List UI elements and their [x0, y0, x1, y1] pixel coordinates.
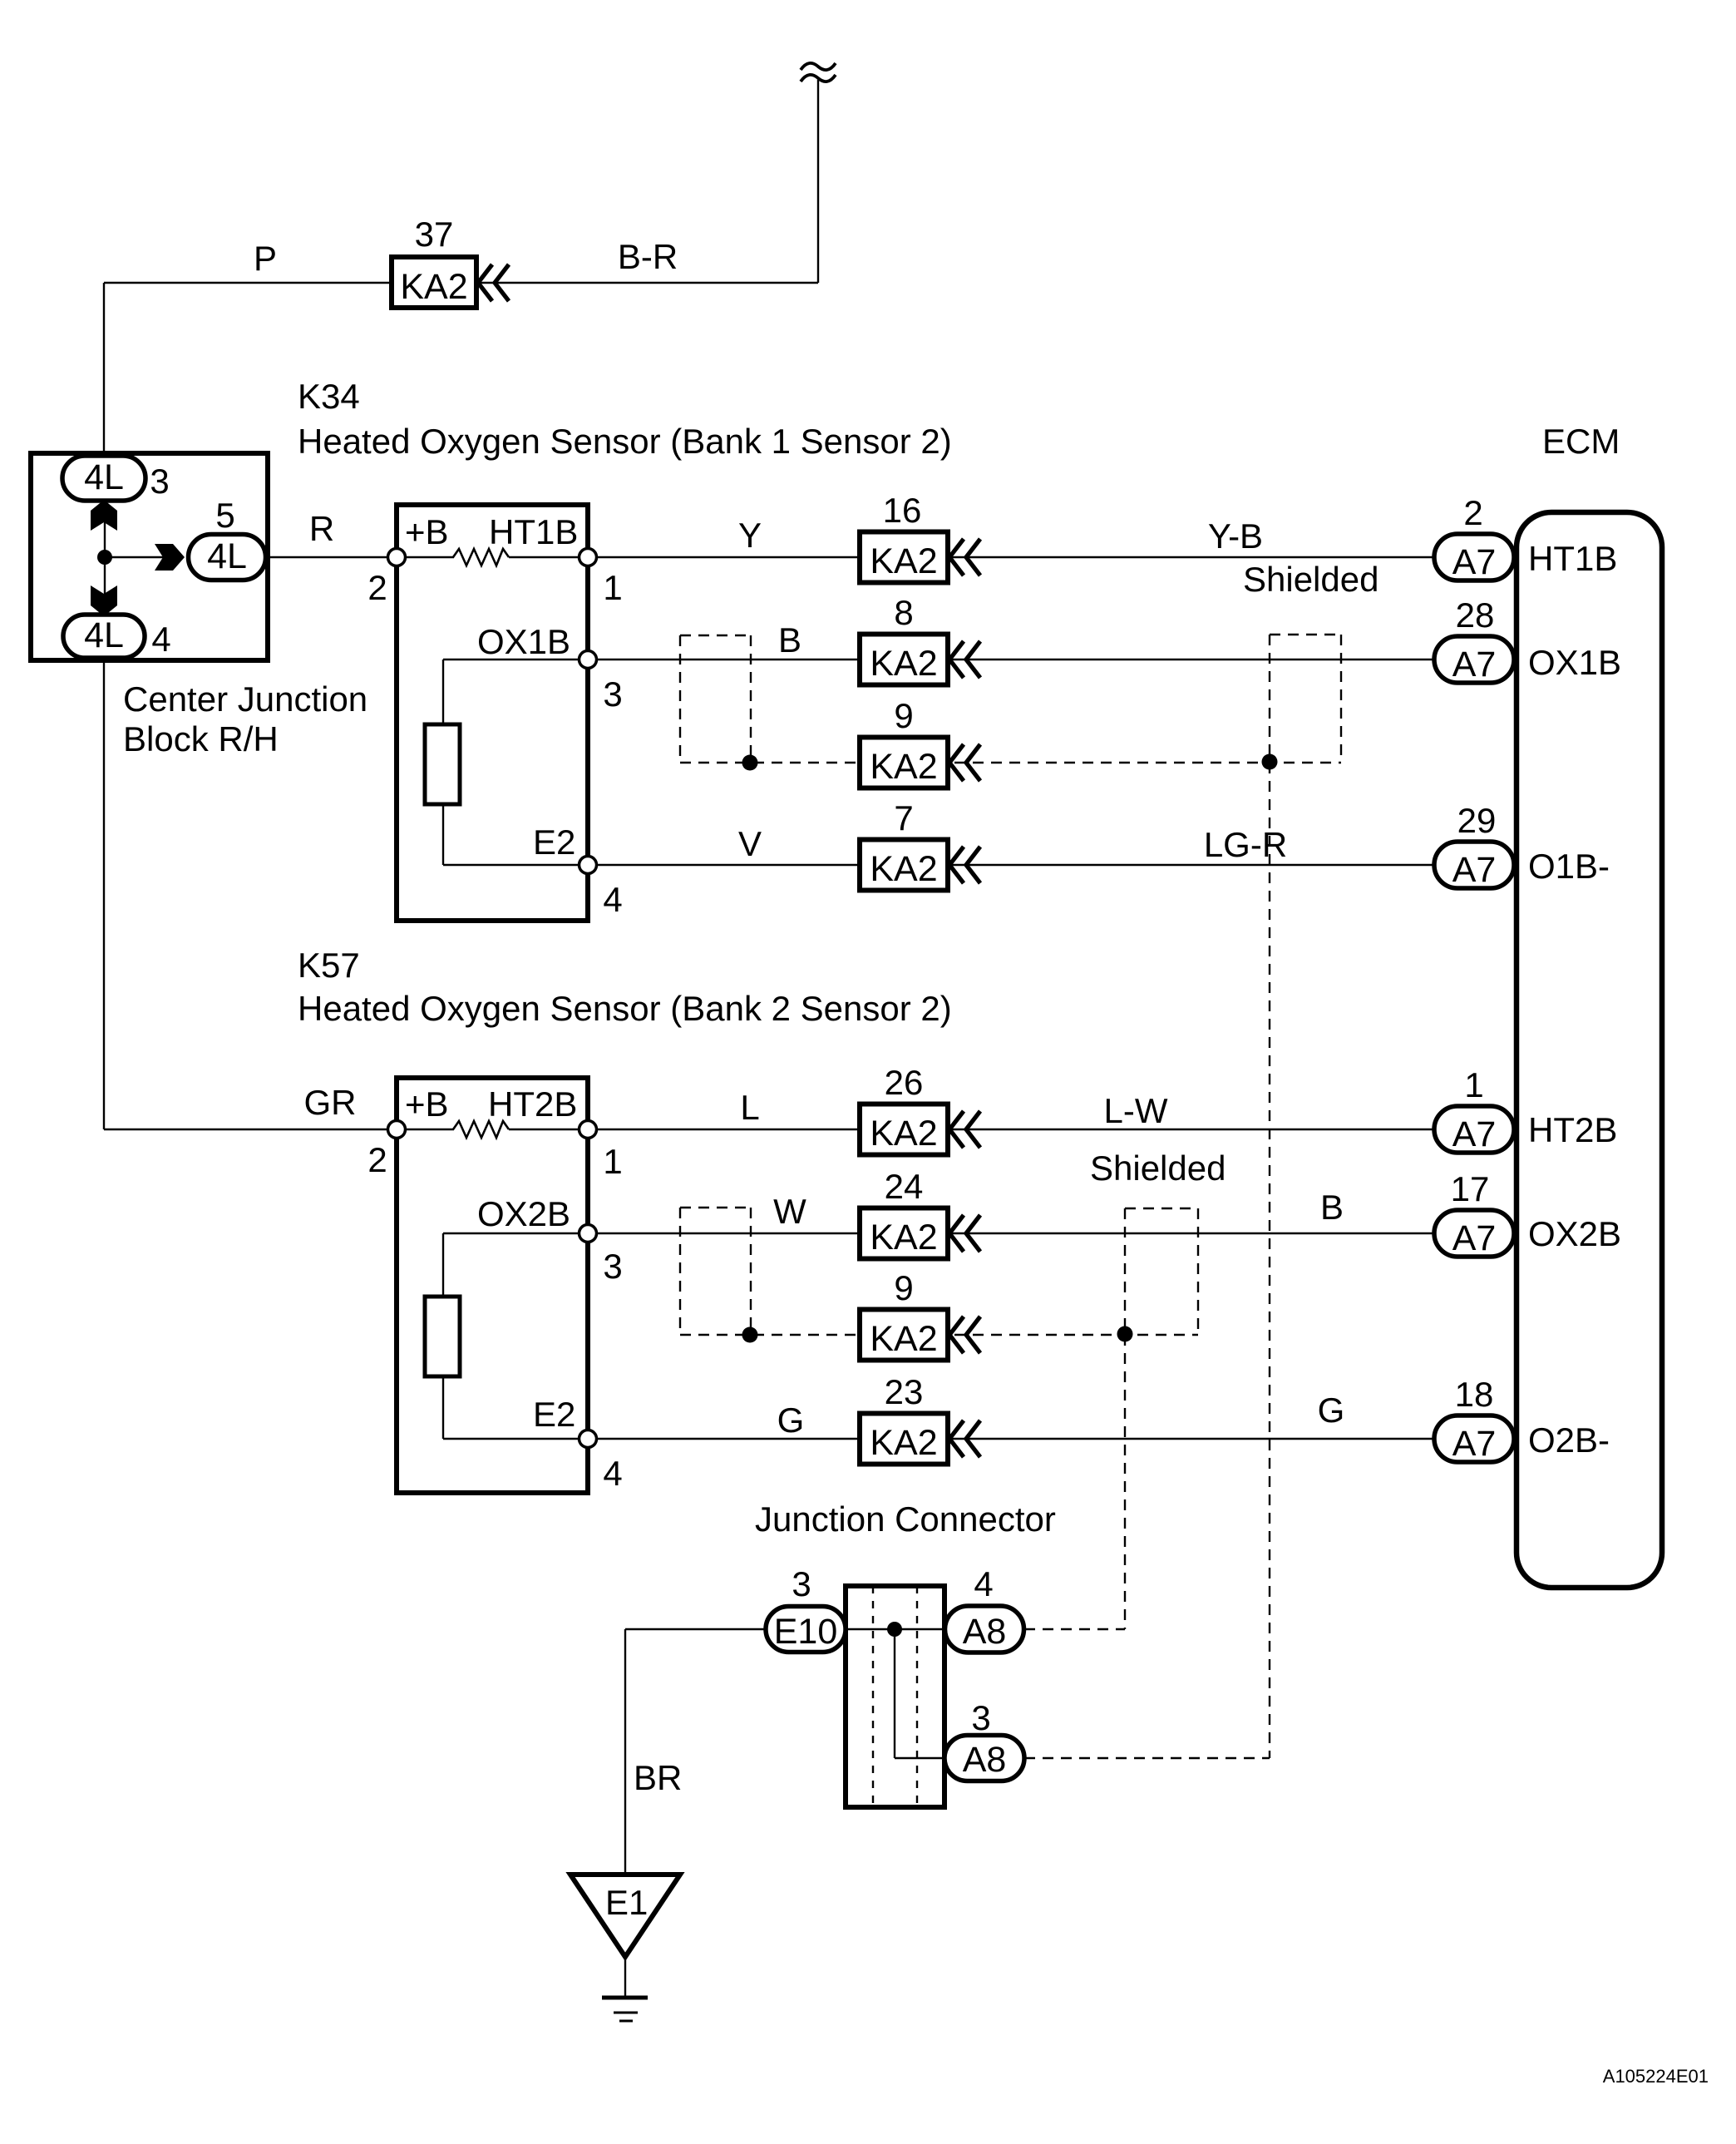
svg-text:BR: BR [634, 1758, 682, 1797]
node junction connector [887, 1622, 902, 1637]
wire W / B OX2B row [588, 1233, 1433, 1234]
shield dashed box K34 sensor side [680, 635, 751, 763]
svg-text:37: 37 [415, 215, 454, 254]
svg-text:Heated Oxygen Sensor (Bank 2 S: Heated Oxygen Sensor (Bank 2 Sensor 2) [298, 989, 952, 1028]
label BR [634, 1758, 682, 1797]
label 1 K34 [603, 568, 622, 607]
connector E10 pin 3 [766, 1607, 846, 1652]
label L [740, 1088, 759, 1127]
wire K57 OX2B internal horizontal [443, 1233, 588, 1234]
node shield K34 sensor side [742, 755, 758, 771]
wire E1 ground lead [624, 1957, 626, 1998]
svg-text:E10: E10 [774, 1612, 838, 1652]
label 3 (A8) [971, 1698, 990, 1737]
wire GR horizontal to K57 +B [104, 1129, 397, 1130]
svg-text:P: P [254, 239, 277, 278]
svg-text:Center Junction: Center Junction [123, 679, 367, 719]
svg-text:+B: +B [405, 1084, 449, 1124]
ground bars [602, 1998, 648, 2021]
wire K57 internal sensor bottom [442, 1376, 444, 1439]
label Center Junction Block R/H [123, 679, 367, 758]
connector A7 pin 2 HT1B [1434, 534, 1514, 582]
wire node to arrow inside junction block [105, 556, 166, 558]
wire B-R horizontal [476, 282, 818, 284]
svg-text:24: 24 [885, 1167, 924, 1206]
svg-text:A7: A7 [1452, 645, 1497, 684]
label Shielded K57 [1090, 1149, 1226, 1188]
label 4 K34 [603, 880, 622, 919]
label 8 [894, 593, 913, 632]
svg-text:3: 3 [150, 462, 169, 501]
sensor element resistor K34 [425, 724, 460, 804]
junction connector body [846, 1586, 944, 1807]
svg-text:17: 17 [1451, 1169, 1490, 1208]
label 3 K57 [603, 1247, 622, 1286]
wire K57 heater to pin 1 [509, 1129, 588, 1130]
connector KA2 pin 16 [860, 532, 980, 583]
svg-text:4: 4 [151, 620, 170, 659]
wire junction connector internal to A8 pin 3 [895, 1757, 945, 1759]
svg-text:1: 1 [603, 1142, 622, 1181]
svg-text:HT1B: HT1B [489, 512, 578, 551]
label 2 (A7) [1463, 493, 1482, 532]
svg-text:16: 16 [883, 491, 922, 530]
svg-text:ECM: ECM [1542, 422, 1620, 461]
label R [309, 509, 334, 548]
wire K57 internal sensor top [442, 1233, 444, 1297]
svg-text:Junction Connector: Junction Connector [755, 1499, 1056, 1539]
label drawing number A105224E01 [1603, 2066, 1709, 2087]
wire P horizontal [104, 282, 392, 284]
connector KA2 pin 9 (K34 shield) [860, 738, 980, 788]
svg-text:KA2: KA2 [870, 1114, 937, 1154]
label B (K34 left) [778, 620, 801, 660]
svg-text:+B: +B [405, 512, 449, 551]
svg-text:HT2B: HT2B [1528, 1110, 1617, 1149]
svg-text:L: L [740, 1088, 759, 1127]
arrow down to pin 4 [91, 585, 117, 616]
svg-text:2: 2 [367, 1140, 387, 1179]
svg-text:3: 3 [971, 1698, 990, 1737]
connector KA2 pin 9 (K57 shield) [860, 1310, 980, 1361]
pin circle K34 4 [579, 857, 597, 874]
svg-text:3: 3 [603, 1247, 622, 1286]
label P [254, 239, 277, 278]
svg-text:A8: A8 [963, 1612, 1007, 1652]
connector A7 pin 18 O2B- [1434, 1415, 1514, 1464]
svg-text:4: 4 [603, 1454, 622, 1493]
wire Y / Y-B HT1B row [588, 556, 1433, 558]
svg-text:E1: E1 [605, 1883, 648, 1922]
svg-text:A7: A7 [1452, 542, 1497, 582]
node shield K34 ECM side [1262, 754, 1278, 770]
label 2 K34 [367, 568, 387, 607]
svg-text:R: R [309, 509, 334, 548]
connector KA2 pin 37 [392, 257, 509, 308]
svg-text:9: 9 [894, 1268, 913, 1307]
svg-text:GR: GR [304, 1083, 357, 1122]
svg-text:26: 26 [885, 1063, 924, 1102]
label Y-B [1208, 516, 1263, 556]
ECM block [1517, 512, 1662, 1588]
label 18 (A7) [1455, 1375, 1494, 1414]
svg-text:Shielded: Shielded [1243, 560, 1378, 599]
svg-text:KA2: KA2 [870, 1319, 937, 1359]
svg-text:A7: A7 [1452, 850, 1497, 890]
connector A8 pin 4 [945, 1606, 1024, 1652]
svg-text:O2B-: O2B- [1528, 1420, 1610, 1460]
label 4 (A8) [974, 1564, 993, 1603]
connector A7 pin 1 HT2B [1434, 1106, 1514, 1154]
svg-text:Shielded: Shielded [1090, 1149, 1226, 1188]
svg-text:4L: 4L [207, 536, 247, 576]
svg-text:B: B [778, 620, 801, 660]
label 7 [894, 798, 913, 837]
label K34 [298, 377, 360, 416]
wire break squiggle [801, 63, 836, 82]
heater resistor HT2B [453, 1121, 509, 1138]
svg-text:5: 5 [215, 496, 234, 535]
svg-text:A8: A8 [963, 1740, 1007, 1780]
label L-W [1104, 1091, 1168, 1130]
svg-text:G: G [777, 1401, 805, 1440]
ground triangle E1 [570, 1875, 680, 1957]
label HT2B ECM [1528, 1110, 1617, 1149]
connector 4L pin 4 [63, 615, 145, 658]
svg-text:Block R/H: Block R/H [123, 719, 279, 758]
wire B-R vertical [817, 80, 819, 283]
connector KA2 pin 7 [860, 840, 980, 891]
connector A8 pin 3 [944, 1736, 1024, 1781]
wire vertical inside junction block [104, 499, 106, 615]
label W (K57 left) [773, 1192, 806, 1231]
label B-R [618, 237, 678, 276]
svg-text:E2: E2 [533, 1395, 575, 1434]
svg-text:2: 2 [367, 568, 387, 607]
label 37 [415, 215, 454, 254]
arrow right to pin 5 [155, 544, 185, 571]
svg-text:A7: A7 [1452, 1424, 1497, 1464]
wire K57 +B to heater resistor [397, 1129, 454, 1130]
label HT1B K34 [489, 512, 578, 551]
label G (K57 left) [777, 1401, 805, 1440]
label 5 (4L) [215, 496, 234, 535]
label ECM [1542, 422, 1620, 461]
label OX2B ECM [1528, 1214, 1621, 1253]
wire P vertical to junction block [103, 283, 105, 456]
svg-text:A7: A7 [1452, 1218, 1497, 1258]
label B (ECM side) [1320, 1188, 1344, 1227]
svg-text:O1B-: O1B- [1528, 847, 1610, 886]
label 1 (A7) [1464, 1065, 1483, 1104]
label E2 K34 [533, 823, 575, 862]
wire K57 E2 internal horizontal [443, 1438, 588, 1440]
svg-text:4L: 4L [84, 457, 124, 497]
svg-text:18: 18 [1455, 1375, 1494, 1414]
arrow up to pin 3 [91, 500, 117, 531]
svg-text:4: 4 [974, 1564, 993, 1603]
pin circle K57 1 [579, 1121, 597, 1139]
svg-text:V: V [738, 824, 762, 863]
label 3 (4L) [150, 462, 169, 501]
label +B K57 [405, 1084, 449, 1124]
svg-text:4: 4 [603, 880, 622, 919]
svg-text:A105224E01: A105224E01 [1603, 2066, 1709, 2087]
svg-text:KA2: KA2 [870, 1218, 937, 1257]
wire K34 internal sensor top [442, 660, 444, 724]
svg-text:K57: K57 [298, 946, 360, 985]
svg-text:Y-B: Y-B [1208, 516, 1263, 556]
dashed wire A8 pin 4 to vertical [1024, 1628, 1125, 1630]
svg-text:E2: E2 [533, 823, 575, 862]
pin circle K34 3 [579, 651, 597, 669]
svg-text:2: 2 [1463, 493, 1482, 532]
svg-text:G: G [1318, 1391, 1345, 1430]
dashed wire A8 pin 3 to vertical [1024, 1757, 1270, 1759]
label O1B- ECM [1528, 847, 1610, 886]
pin circle K34 +B [388, 549, 406, 566]
label G (ECM side) [1318, 1391, 1345, 1430]
svg-text:OX1B: OX1B [477, 622, 570, 661]
label OX1B ECM [1528, 643, 1621, 682]
label 9 (K57) [894, 1268, 913, 1307]
wire K34 OX1B internal horizontal [443, 659, 588, 660]
wire G / G O2B- row [588, 1438, 1433, 1440]
svg-text:HT2B: HT2B [488, 1084, 577, 1124]
svg-text:28: 28 [1456, 595, 1495, 635]
label 23 [885, 1372, 924, 1411]
label OX1B K34 [477, 622, 570, 661]
wire K34 internal sensor bottom [442, 804, 444, 865]
svg-text:3: 3 [792, 1564, 811, 1603]
shield dashed vertical to A8 pin 3 [1269, 763, 1270, 1758]
node center junction block [97, 550, 112, 565]
pin circle K57 4 [579, 1430, 597, 1448]
label OX2B K57 [477, 1194, 570, 1233]
connector A7 pin 28 OX1B [1434, 636, 1514, 684]
connector 4L pin 5 [189, 535, 266, 580]
connector KA2 pin 8 [860, 635, 980, 685]
shield dashed vertical to A8 pin 4 [1124, 1335, 1126, 1629]
svg-text:KA2: KA2 [870, 644, 937, 684]
label HT2B K57 [488, 1084, 577, 1124]
svg-text:OX2B: OX2B [1528, 1214, 1621, 1253]
label E2 K57 [533, 1395, 575, 1434]
shield dashed drain wire K57 row 9 [680, 1334, 1198, 1336]
shield dashed box K34 ECM side [1270, 635, 1341, 761]
wire V / LG-R O1B- row [588, 864, 1433, 866]
label Junction Connector [755, 1499, 1056, 1539]
wire L / L-W HT2B row [588, 1129, 1433, 1130]
wire K34 E2 internal horizontal [443, 864, 588, 866]
wire E10 to junction connector [625, 1628, 945, 1630]
heated oxygen sensor K57 outline [397, 1078, 588, 1493]
shield dashed drain wire K34 row 9 [680, 762, 1341, 763]
svg-text:KA2: KA2 [400, 267, 467, 307]
svg-text:1: 1 [1464, 1065, 1483, 1104]
svg-text:29: 29 [1457, 801, 1497, 840]
svg-text:9: 9 [894, 696, 913, 735]
label 1 K57 [603, 1142, 622, 1181]
label K57 [298, 946, 360, 985]
svg-text:B-R: B-R [618, 237, 678, 276]
label 16 [883, 491, 922, 530]
label O2B- ECM [1528, 1420, 1610, 1460]
connector A7 pin 17 OX2B [1434, 1210, 1514, 1258]
svg-text:KA2: KA2 [870, 849, 937, 889]
svg-text:8: 8 [894, 593, 913, 632]
connector KA2 pin 23 [860, 1414, 980, 1465]
connector A7 pin 29 O1B- [1434, 842, 1514, 890]
label K57 title [298, 989, 952, 1028]
label 24 [885, 1167, 924, 1206]
connector 4L pin 3 [62, 456, 145, 501]
connector KA2 pin 24 [860, 1208, 980, 1259]
svg-text:7: 7 [894, 798, 913, 837]
node shield K57 ECM side [1117, 1326, 1133, 1342]
svg-text:LG-R: LG-R [1204, 825, 1287, 864]
svg-text:23: 23 [885, 1372, 924, 1411]
svg-text:KA2: KA2 [870, 747, 937, 787]
label Shielded K34 [1243, 560, 1378, 599]
label LG-R [1204, 825, 1287, 864]
sensor element resistor K57 [425, 1297, 460, 1376]
label 28 (A7) [1456, 595, 1495, 635]
wire B / W OX1B row [588, 659, 1433, 660]
label 3 K34 [603, 674, 622, 714]
label Y [738, 516, 762, 555]
pin circle K34 1 [579, 549, 597, 566]
wire R junction block to K34 +B [268, 556, 397, 558]
label 2 K57 [367, 1140, 387, 1179]
label HT1B ECM [1528, 539, 1617, 578]
svg-text:3: 3 [603, 674, 622, 714]
label +B K34 [405, 512, 449, 551]
svg-text:Heated Oxygen Sensor (Bank 1 S: Heated Oxygen Sensor (Bank 1 Sensor 2) [298, 422, 952, 461]
label 9 (K34) [894, 696, 913, 735]
label 4 (4L) [151, 620, 170, 659]
svg-text:4L: 4L [84, 615, 124, 655]
svg-text:B: B [1320, 1188, 1344, 1227]
heated oxygen sensor K34 outline [397, 505, 588, 921]
heater resistor HT1B [453, 549, 509, 566]
label GR [304, 1083, 357, 1122]
pin circle K57 3 [579, 1225, 597, 1242]
shield dashed box K57 ECM side [1125, 1208, 1198, 1333]
label 26 [885, 1063, 924, 1102]
svg-text:W: W [773, 1192, 806, 1231]
wire GR vertical [103, 660, 105, 1129]
label 17 (A7) [1451, 1169, 1490, 1208]
label 29 (A7) [1457, 801, 1497, 840]
wire K34 +B to heater resistor [397, 556, 454, 558]
pin circle K57 +B [388, 1121, 406, 1139]
svg-text:A7: A7 [1452, 1114, 1497, 1154]
label K34 title [298, 422, 952, 461]
svg-text:OX2B: OX2B [477, 1194, 570, 1233]
wire K34 heater to pin 1 [509, 556, 588, 558]
wire junction connector internal vertical [894, 1629, 895, 1758]
svg-text:HT1B: HT1B [1528, 539, 1617, 578]
connector KA2 pin 26 [860, 1104, 980, 1155]
svg-text:OX1B: OX1B [1528, 643, 1621, 682]
shield dashed box K57 sensor side [680, 1208, 751, 1335]
svg-text:1: 1 [603, 568, 622, 607]
svg-text:L-W: L-W [1104, 1091, 1168, 1130]
center junction block R/H outline [31, 453, 268, 660]
svg-text:KA2: KA2 [870, 541, 937, 581]
svg-text:K34: K34 [298, 377, 360, 416]
svg-text:Y: Y [738, 516, 762, 555]
label 4 K57 [603, 1454, 622, 1493]
node shield K57 sensor side [742, 1327, 758, 1343]
label V [738, 824, 762, 863]
svg-text:KA2: KA2 [870, 1423, 937, 1463]
label 3 (E10) [792, 1564, 811, 1603]
wire BR vertical [624, 1629, 626, 1875]
